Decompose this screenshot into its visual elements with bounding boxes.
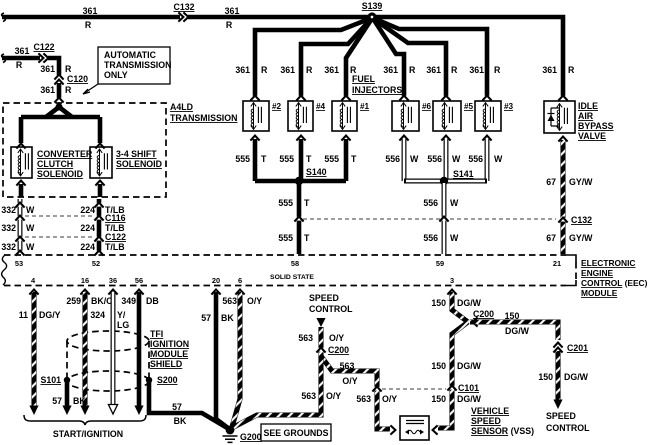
wire 67 GY/W from idle air bypass valve <box>560 140 565 254</box>
label 563 O/Y (horizontal run) <box>340 361 358 386</box>
label 361 R (above C120) <box>40 64 72 74</box>
svg-text:S200: S200 <box>157 375 178 385</box>
svg-text:3: 3 <box>450 276 454 285</box>
label 556 W (stem upper) <box>423 198 459 208</box>
wire 361 R branch feed W2 <box>2 54 59 99</box>
svg-text:SOLENOID: SOLENOID <box>116 159 162 169</box>
svg-text:W: W <box>26 242 35 252</box>
svg-text:20: 20 <box>212 276 220 285</box>
label 361 R (injector 2 wire) <box>235 65 268 75</box>
label 57 BK (S200 wire) <box>172 402 187 426</box>
connector C132 dashed link <box>303 218 556 220</box>
svg-text:TRANSMISSION: TRANSMISSION <box>170 113 237 123</box>
svg-text:224: 224 <box>80 242 95 252</box>
label 361 R (injector 4 wire) <box>280 65 313 75</box>
entry chevron into A4LD <box>54 98 63 103</box>
connector C122 dashed link <box>25 236 93 238</box>
label 563 O/Y (below C101) <box>356 394 397 404</box>
svg-text:T: T <box>304 198 310 208</box>
svg-text:R: R <box>568 65 575 75</box>
svg-text:C101: C101 <box>458 383 479 393</box>
svg-text:DG/W: DG/W <box>457 361 482 371</box>
pin 56 <box>135 276 143 285</box>
svg-text:MODULE: MODULE <box>150 349 188 359</box>
svg-text:563: 563 <box>340 361 355 371</box>
svg-text:W: W <box>452 154 461 164</box>
svg-text:#2: #2 <box>272 102 282 111</box>
wire 556 W from injector 5 <box>444 139 449 181</box>
svg-text:361: 361 <box>542 65 557 75</box>
wire 555 T from injector 2 <box>253 139 258 181</box>
svg-text:36: 36 <box>109 276 117 285</box>
svg-text:150: 150 <box>505 311 520 321</box>
svg-text:FUEL: FUEL <box>352 74 376 84</box>
label SPEED CONTROL (source) <box>309 293 353 314</box>
svg-text:150: 150 <box>431 361 446 371</box>
svg-text:INJECTORS: INJECTORS <box>352 85 402 95</box>
pin 3 <box>450 276 454 285</box>
chevron C101 (on 563 wire) <box>372 387 381 392</box>
label TFI IGNITION MODULE SHIELD <box>150 329 189 369</box>
svg-text:DB: DB <box>146 296 159 306</box>
label 150 DG/W (to C201) <box>505 311 530 336</box>
svg-text:C200: C200 <box>328 345 349 355</box>
svg-text:GY/W: GY/W <box>569 177 593 187</box>
wire 556 W stem to pin 59 <box>442 183 447 254</box>
svg-text:R: R <box>226 20 233 30</box>
wire 324 Y/LG (pin 36) <box>108 292 117 414</box>
label 563 O/Y (pin 6) <box>222 296 262 306</box>
svg-text:CONTROL: CONTROL <box>546 423 590 433</box>
chevron below converter clutch solenoid <box>16 181 25 186</box>
svg-text:361: 361 <box>40 64 55 74</box>
svg-text:W: W <box>410 154 419 164</box>
svg-text:349: 349 <box>121 296 136 306</box>
bus bar to solenoids <box>21 115 100 120</box>
svg-text:#4: #4 <box>316 102 326 111</box>
3-4 shift solenoid <box>90 147 112 178</box>
connector C120 <box>54 74 88 85</box>
svg-text:361: 361 <box>469 65 484 75</box>
label 361 R (below C120) <box>40 85 72 95</box>
svg-text:R: R <box>16 60 23 70</box>
svg-text:67: 67 <box>546 177 556 187</box>
labels 332 W <box>1 205 35 252</box>
svg-text:ONLY: ONLY <box>104 70 128 80</box>
svg-text:CONTROL: CONTROL <box>309 304 353 314</box>
svg-text:W: W <box>450 198 459 208</box>
splice S101 <box>40 375 70 385</box>
label ELECTRONIC ENGINE CONTROL (EEC) MODULE <box>581 258 648 298</box>
wire to injector 5 <box>374 19 446 97</box>
chevrons on 332 wire <box>15 203 24 256</box>
wire 349 DB (pin 56) <box>134 292 143 415</box>
svg-text:O/Y: O/Y <box>329 333 344 343</box>
svg-text:52: 52 <box>92 259 100 268</box>
chevrons under injectors <box>250 136 567 142</box>
wire 259 BK/O (pin 16) <box>80 292 89 415</box>
wire 57 BK (pin 20) to G200 <box>216 292 228 428</box>
svg-text:BK: BK <box>174 416 187 426</box>
pin 36 <box>109 276 117 285</box>
svg-text:150: 150 <box>538 372 553 382</box>
label 150 DG/W (above C101) <box>431 361 481 371</box>
svg-text:6: 6 <box>238 276 242 285</box>
svg-text:361: 361 <box>235 65 250 75</box>
svg-text:SPEED: SPEED <box>471 416 501 426</box>
svg-text:W: W <box>26 223 35 233</box>
svg-text:324: 324 <box>90 310 105 320</box>
svg-text:R: R <box>65 85 72 95</box>
svg-text:556: 556 <box>423 198 438 208</box>
label 57 BK (pin 20) <box>201 313 234 323</box>
label VEHICLE SPEED SENSOR (VSS) <box>471 406 534 436</box>
label 361 R (injector 3 wire) <box>469 65 501 75</box>
svg-text:R: R <box>65 64 72 74</box>
wire to injector 1 <box>346 20 371 97</box>
brace START/IGNITION <box>24 415 146 439</box>
svg-text:TRANSMISSION: TRANSMISSION <box>104 60 171 70</box>
label 555 T (inj2) <box>235 154 267 164</box>
label 556 W (inj6) <box>385 154 419 164</box>
label 563 O/Y (above C200) <box>298 333 344 343</box>
splice S200 <box>146 375 178 385</box>
label IDLE AIR BYPASS VALVE <box>578 101 614 141</box>
wire 563 O/Y (pin 6) to G200 <box>232 292 240 427</box>
label CONVERTER CLUTCH SOLENOID <box>37 149 93 179</box>
wire 57 BK from S200 to G200 <box>149 380 229 429</box>
svg-text:CONVERTER: CONVERTER <box>37 149 93 159</box>
connector C122 (on branch feed) <box>33 42 54 63</box>
svg-text:563: 563 <box>222 296 237 306</box>
ground G200 <box>223 426 262 443</box>
chevron atop 3-4 shift solenoid <box>95 144 104 149</box>
svg-text:SPEED: SPEED <box>309 293 339 303</box>
note box AUTOMATIC TRANSMISSION ONLY <box>83 47 171 94</box>
svg-text:R: R <box>261 65 268 75</box>
svg-text:#6: #6 <box>422 102 432 111</box>
svg-text:W: W <box>494 154 503 164</box>
svg-text:C120: C120 <box>67 74 88 84</box>
svg-text:G200: G200 <box>240 432 262 442</box>
wire 563 O/Y to VSS <box>321 356 390 429</box>
wire to injector 2 <box>255 19 369 97</box>
splice S140 <box>295 167 327 185</box>
label 556 W (stem lower) <box>423 233 459 243</box>
label 3-4 SHIFT SOLENOID <box>116 149 162 169</box>
svg-text:S139: S139 <box>362 1 383 11</box>
wire 332 W <box>18 199 23 254</box>
label 11 DG/Y <box>19 310 61 320</box>
chevron on 556 stem at C132 <box>439 217 448 222</box>
svg-text:SENSOR (VSS): SENSOR (VSS) <box>471 426 534 436</box>
svg-text:361: 361 <box>324 65 339 75</box>
wire 563 O/Y to G200 <box>230 356 321 429</box>
label 349 DB <box>121 296 158 306</box>
svg-text:56: 56 <box>135 276 143 285</box>
svg-text:11: 11 <box>19 310 28 320</box>
wire 555 T from injector 4 <box>299 139 304 181</box>
label FUEL INJECTORS <box>352 74 402 95</box>
svg-text:IDLE: IDLE <box>578 101 598 111</box>
svg-text:#5: #5 <box>464 102 474 111</box>
svg-text:556: 556 <box>468 154 483 164</box>
fuel injector #1 <box>332 101 370 131</box>
wire 150 DG/W to C201 <box>470 322 558 340</box>
svg-text:57: 57 <box>201 313 211 323</box>
wire 556 W from injector 6 <box>402 139 407 181</box>
svg-text:R: R <box>494 65 501 75</box>
label 361 R (right of C132) <box>225 6 240 30</box>
label 57 BK (S101) <box>52 396 86 406</box>
fuel injector #2 <box>243 101 282 131</box>
label 556 W (inj5) <box>427 154 461 164</box>
connector C101 dashed link <box>382 388 446 390</box>
svg-text:556: 556 <box>427 154 442 164</box>
svg-text:T: T <box>261 154 267 164</box>
svg-text:150: 150 <box>431 298 446 308</box>
labels 224 T/LB and C116 C122 <box>80 205 126 252</box>
svg-text:361: 361 <box>40 85 55 95</box>
svg-text:START/IGNITION: START/IGNITION <box>53 429 123 439</box>
wire 555 T stem to pin 58 <box>297 181 302 254</box>
vehicle speed sensor VSS <box>390 416 437 440</box>
EEC module dashed box <box>0 0 576 294</box>
connector chevrons atop injectors <box>250 96 567 101</box>
svg-text:SEE GROUNDS: SEE GROUNDS <box>263 428 328 438</box>
wire to converter clutch solenoid <box>19 117 24 143</box>
svg-text:555: 555 <box>235 154 250 164</box>
svg-text:361: 361 <box>426 65 441 75</box>
svg-text:556: 556 <box>423 233 438 243</box>
wire 563 O/Y from speed control <box>318 327 323 358</box>
label 563 O/Y (G200 branch) <box>301 391 341 401</box>
svg-text:DG/W: DG/W <box>457 394 482 404</box>
label 361 R (injector 6 wire) <box>383 65 416 75</box>
svg-text:T: T <box>306 154 312 164</box>
wire to injector 4 <box>301 20 370 97</box>
chevron on 555 stem at C132 <box>294 217 303 222</box>
connector C200 (VSS circuit) <box>473 309 495 327</box>
svg-text:TFI: TFI <box>150 329 163 339</box>
wire 150 DG/W (pin 3) <box>452 292 468 322</box>
wire 555 T from injector 1 <box>344 139 349 181</box>
chevron below 3-4 shift solenoid <box>95 181 104 186</box>
svg-text:AUTOMATIC: AUTOMATIC <box>104 50 157 60</box>
fuel injector #4 <box>288 101 326 131</box>
pin 58 <box>291 259 299 268</box>
label 259 BK/O <box>66 296 113 306</box>
label 361 R (left of C122) <box>15 46 30 70</box>
svg-text:ELECTRONIC: ELECTRONIC <box>581 258 635 268</box>
svg-text:#1: #1 <box>360 102 370 111</box>
pin 59 <box>436 259 444 268</box>
svg-text:563: 563 <box>301 391 316 401</box>
label SPEED CONTROL (destination) <box>546 411 590 433</box>
svg-text:VEHICLE: VEHICLE <box>471 406 509 416</box>
svg-text:BYPASS: BYPASS <box>578 121 614 131</box>
svg-text:SOLID STATE: SOLID STATE <box>270 274 314 281</box>
wire 224 T/LB <box>97 199 102 254</box>
svg-text:DG/W: DG/W <box>505 326 530 336</box>
chevrons on 224 wire <box>94 203 103 256</box>
label 361 R (injector 1 wire) <box>324 65 357 75</box>
wire 57 BK from S101 <box>62 380 71 415</box>
svg-text:SPEED: SPEED <box>546 411 576 421</box>
svg-text:A4LD: A4LD <box>170 102 193 112</box>
svg-text:C122: C122 <box>105 232 126 242</box>
TFI ignition module shield <box>67 331 149 391</box>
pin 4 <box>31 276 36 285</box>
wire 150 DG/W to speed control <box>553 351 562 409</box>
svg-text:C201: C201 <box>567 343 588 353</box>
bus bar into S141 <box>404 179 487 184</box>
svg-text:Y/: Y/ <box>117 310 126 320</box>
svg-text:DG/W: DG/W <box>564 372 589 382</box>
svg-text:58: 58 <box>291 259 299 268</box>
svg-text:CLUTCH: CLUTCH <box>37 159 73 169</box>
svg-text:S101: S101 <box>40 375 61 385</box>
svg-text:C200: C200 <box>473 309 494 319</box>
node: solenoid feed split <box>46 103 72 117</box>
splice S141 <box>440 169 474 185</box>
svg-text:555: 555 <box>324 154 339 164</box>
connector C132 (on 67 wire) <box>558 215 592 225</box>
svg-text:16: 16 <box>81 276 89 285</box>
label 555 T (inj4) <box>279 154 312 164</box>
label 150 DG/W (below C101) <box>431 394 481 404</box>
svg-text:224: 224 <box>80 223 95 233</box>
svg-text:S140: S140 <box>306 167 327 177</box>
svg-text:59: 59 <box>436 259 444 268</box>
svg-text:BK: BK <box>73 396 86 406</box>
svg-text:563: 563 <box>356 394 371 404</box>
svg-text:53: 53 <box>15 259 23 268</box>
label 361 R (idle air bypass wire) <box>542 65 575 75</box>
svg-text:S141: S141 <box>453 169 474 179</box>
label 555 T (stem lower) <box>278 233 310 243</box>
connector C116 dashed link <box>25 215 93 217</box>
connector C200 <box>316 345 349 355</box>
A4LD transmission dashed box <box>3 103 166 197</box>
pin 21 <box>553 259 561 268</box>
svg-text:SHIELD: SHIELD <box>150 359 182 369</box>
wire 11 DG/Y (pin 4) <box>29 292 38 415</box>
wire 556 W from injector 3 <box>485 139 490 181</box>
wire W1: 361 R main feed <box>2 13 563 97</box>
svg-text:ENGINE: ENGINE <box>581 268 614 278</box>
svg-text:O/Y: O/Y <box>342 376 357 386</box>
wire to injector 6 <box>374 20 404 97</box>
svg-text:R: R <box>409 65 416 75</box>
svg-text:GY/W: GY/W <box>569 233 593 243</box>
svg-text:332: 332 <box>1 242 16 252</box>
pin 52 <box>92 259 100 268</box>
svg-text:555: 555 <box>278 233 293 243</box>
label 555 T (stem upper) <box>278 198 310 208</box>
label 324 Y/LG <box>90 310 129 330</box>
label 150 DG/W (lower right) <box>538 372 588 382</box>
svg-text:556: 556 <box>385 154 400 164</box>
wire 150 DG/W down to C101 <box>438 322 468 428</box>
idle air bypass valve <box>544 101 575 133</box>
svg-text:361: 361 <box>383 65 398 75</box>
svg-text:57: 57 <box>172 402 182 412</box>
label 361 R (injector 5 wire) <box>426 65 458 75</box>
pin 53 <box>15 259 23 268</box>
chevron atop converter clutch solenoid <box>16 144 25 149</box>
svg-text:R: R <box>306 65 313 75</box>
svg-text:C132: C132 <box>173 2 194 12</box>
svg-text:AIR: AIR <box>578 111 594 121</box>
label 556 W (inj3) <box>468 154 503 164</box>
svg-text:W: W <box>450 233 459 243</box>
svg-text:T: T <box>351 154 357 164</box>
svg-text:555: 555 <box>279 154 294 164</box>
svg-text:563: 563 <box>298 333 313 343</box>
svg-text:LG: LG <box>117 320 129 330</box>
converter clutch solenoid <box>11 147 32 178</box>
splice S139 <box>362 1 383 22</box>
svg-text:332: 332 <box>1 205 16 215</box>
svg-text:21: 21 <box>553 259 561 268</box>
svg-text:R: R <box>451 65 458 75</box>
svg-text:57: 57 <box>52 396 62 406</box>
arrow from speed control <box>316 318 325 327</box>
label 361 R (left of C132) <box>83 6 98 30</box>
svg-text:CONTROL (EEC): CONTROL (EEC) <box>581 278 648 288</box>
svg-text:DG/W: DG/W <box>457 298 482 308</box>
svg-text:259: 259 <box>66 296 81 306</box>
svg-text:555: 555 <box>278 198 293 208</box>
svg-text:224: 224 <box>80 205 95 215</box>
svg-text:361: 361 <box>280 65 295 75</box>
label 67 GY/W (lower) <box>546 233 593 243</box>
svg-text:#3: #3 <box>504 102 514 111</box>
svg-text:O/Y: O/Y <box>247 296 262 306</box>
svg-text:O/Y: O/Y <box>326 391 341 401</box>
pin 16 <box>81 276 89 285</box>
label A4LD TRANSMISSION <box>170 102 237 123</box>
stub wires to A4LD edge <box>21 184 100 197</box>
svg-text:T: T <box>304 233 310 243</box>
svg-text:67: 67 <box>546 233 556 243</box>
chevrons below EEC pins <box>29 290 456 295</box>
label 67 GY/W (upper) <box>546 177 593 187</box>
svg-text:C132: C132 <box>571 215 592 225</box>
label SOLID STATE <box>270 274 314 281</box>
svg-text:VALVE: VALVE <box>578 131 606 141</box>
svg-text:361: 361 <box>225 6 240 16</box>
fuel injector #3 <box>475 101 514 131</box>
svg-text:150: 150 <box>431 394 446 404</box>
connector C101 <box>447 383 479 393</box>
svg-text:332: 332 <box>1 223 16 233</box>
svg-text:BK: BK <box>221 313 234 323</box>
pin 20 <box>212 276 220 285</box>
svg-text:W: W <box>26 205 35 215</box>
connector C201 <box>553 343 588 353</box>
fuel injector #5 <box>433 101 474 131</box>
wire to 3-4 shift solenoid <box>98 117 103 143</box>
svg-text:T/LB: T/LB <box>105 242 125 252</box>
svg-text:C116: C116 <box>105 213 126 223</box>
svg-text:C122: C122 <box>33 42 54 52</box>
wire to injector 3 <box>373 18 487 97</box>
svg-text:IGNITION: IGNITION <box>150 339 189 349</box>
label 555 T (inj1) <box>324 154 357 164</box>
bus bar into S140 <box>255 179 346 184</box>
